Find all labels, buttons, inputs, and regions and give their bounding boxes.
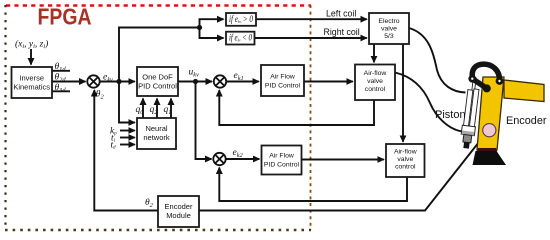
svg-text:control: control — [365, 86, 386, 93]
robot yellow arm link — [504, 80, 544, 102]
svg-text:ukv: ukv — [189, 68, 200, 79]
robot yellow column — [477, 77, 504, 150]
wire S1 to One DoF PID — [100, 81, 135, 83]
svg-text:Air Flow: Air Flow — [269, 153, 294, 160]
block Air-flow valve control upper — [355, 65, 395, 101]
node junction top — [197, 25, 202, 30]
svg-text:network: network — [143, 133, 170, 142]
svg-text:valve: valve — [397, 156, 413, 163]
svg-text:if ekv > 0: if ekv > 0 — [229, 14, 253, 25]
wire Air Flow PID to valve control upper — [304, 81, 353, 83]
wire if2 to electro valve — [255, 37, 367, 39]
wire Air Flow PID bottom to lower valve control — [302, 159, 384, 161]
svg-text:θ2d: θ2d — [55, 72, 67, 83]
wire PID to S2 — [178, 81, 212, 83]
block Air Flow PID Control top — [261, 65, 304, 96]
block One DoF PID Control — [137, 67, 178, 96]
FPGA dashed border left — [4, 5, 6, 230]
FPGA dashed border bottom — [5, 229, 311, 231]
clamp right pivot — [496, 77, 504, 85]
summing junction S2 — [214, 75, 226, 87]
FPGA dashed border top — [6, 4, 311, 6]
svg-text:Encoder: Encoder — [165, 202, 193, 211]
svg-text:ek1: ek1 — [234, 71, 244, 82]
wire branch up to if boxes — [119, 28, 200, 82]
svg-text:Air Flow: Air Flow — [270, 74, 295, 81]
block Neural network — [137, 118, 176, 149]
svg-text:if ekv < 0: if ekv < 0 — [229, 33, 252, 44]
svg-text:One DoF: One DoF — [142, 73, 173, 82]
svg-text:PID Control: PID Control — [265, 83, 301, 90]
svg-text:control: control — [395, 164, 416, 171]
wire input arrow into Inverse Kinematics — [30, 49, 32, 65]
svg-text:Module: Module — [166, 211, 191, 220]
wire electro valve down to upper valve control — [373, 44, 375, 62]
wire curve upper valve control to piston bottom — [395, 73, 462, 132]
svg-text:Kinematics: Kinematics — [13, 83, 50, 92]
svg-text:Piston: Piston — [435, 109, 466, 121]
svg-text:5/3: 5/3 — [384, 33, 394, 40]
svg-text:θ2: θ2 — [145, 198, 154, 209]
wire kp stub — [120, 130, 135, 132]
wire curve electro valve to piston top — [409, 28, 466, 93]
encoder pink disc — [483, 124, 496, 137]
svg-text:Inverse: Inverse — [19, 74, 44, 83]
svg-text:Neural: Neural — [145, 124, 167, 133]
wire to if-box 2 — [200, 28, 224, 39]
svg-text:θ2: θ2 — [96, 90, 105, 101]
clamp bottom pivot — [483, 84, 491, 92]
svg-text:Electro: Electro — [378, 18, 399, 25]
node junction u_kv — [193, 79, 198, 84]
svg-text:ek2: ek2 — [233, 148, 244, 159]
wire to if-box 1 — [200, 19, 224, 27]
block Air-flow valve control lower — [386, 144, 425, 177]
wire q0 up — [142, 99, 144, 119]
svg-text:FPGA: FPGA — [38, 4, 92, 30]
FPGA dashed border right — [310, 5, 312, 230]
robot maroon strip — [477, 148, 498, 153]
block Inverse Kinematics — [12, 67, 53, 98]
wire q2 up — [156, 99, 158, 119]
svg-text:PID Control: PID Control — [138, 82, 177, 91]
summing junction S1 — [87, 75, 99, 87]
wire branch down to Neural network — [119, 82, 135, 123]
block if ekv < 0 — [226, 32, 255, 45]
summing junction S3 — [213, 153, 225, 165]
svg-text:Air-flow: Air-flow — [394, 149, 417, 156]
svg-text:valve: valve — [367, 78, 383, 85]
svg-text:valve: valve — [381, 25, 397, 32]
wire td stub — [120, 144, 135, 146]
block Air Flow PID Control bottom — [262, 146, 302, 175]
wire theta3d stub — [52, 90, 70, 92]
clamp diagonal link — [472, 79, 487, 89]
wire Encoder Module output to S1 — [94, 90, 158, 210]
wire theta1d stub — [52, 70, 70, 72]
wire theta2d to sum S1 — [52, 81, 86, 83]
robot arm group — [460, 64, 544, 165]
wire q1 up — [170, 99, 172, 119]
svg-text:Air-flow: Air-flow — [364, 70, 387, 77]
block Encoder Module — [158, 196, 199, 227]
svg-text:Left coil: Left coil — [326, 9, 356, 19]
block if ekv > 0 — [226, 13, 256, 26]
wire encoder diagonal from robot to Encoder Module — [199, 135, 485, 211]
wire feedback upper valve control to S2 — [219, 90, 374, 125]
svg-text:Right coil: Right coil — [324, 27, 360, 37]
svg-text:θ1d: θ1d — [55, 62, 67, 73]
node junction e_kv — [116, 79, 121, 84]
wire S2 to Air Flow PID top — [226, 81, 258, 83]
svg-text:θ3d: θ3d — [55, 83, 67, 94]
svg-text:(xi, yi, zi): (xi, yi, zi) — [15, 39, 48, 51]
wire if1 to electro valve — [256, 18, 367, 20]
piston assembly — [460, 77, 482, 149]
svg-text:PID Control: PID Control — [264, 162, 300, 169]
wire electro valve down to lower valve control — [402, 44, 404, 142]
svg-text:Encoder: Encoder — [506, 115, 547, 127]
wire S3 to Air Flow PID bottom — [226, 158, 259, 160]
wire feedback lower valve control to S3 — [219, 168, 407, 202]
wire ti stub — [120, 137, 135, 139]
clamp link top arc — [472, 64, 499, 81]
wire u_kv branch down to S3 — [196, 82, 212, 160]
block Electro valve 5/3 — [369, 13, 409, 44]
robot black base — [473, 151, 507, 165]
clamp left pivot — [468, 75, 476, 83]
svg-text:ekv: ekv — [103, 73, 113, 84]
